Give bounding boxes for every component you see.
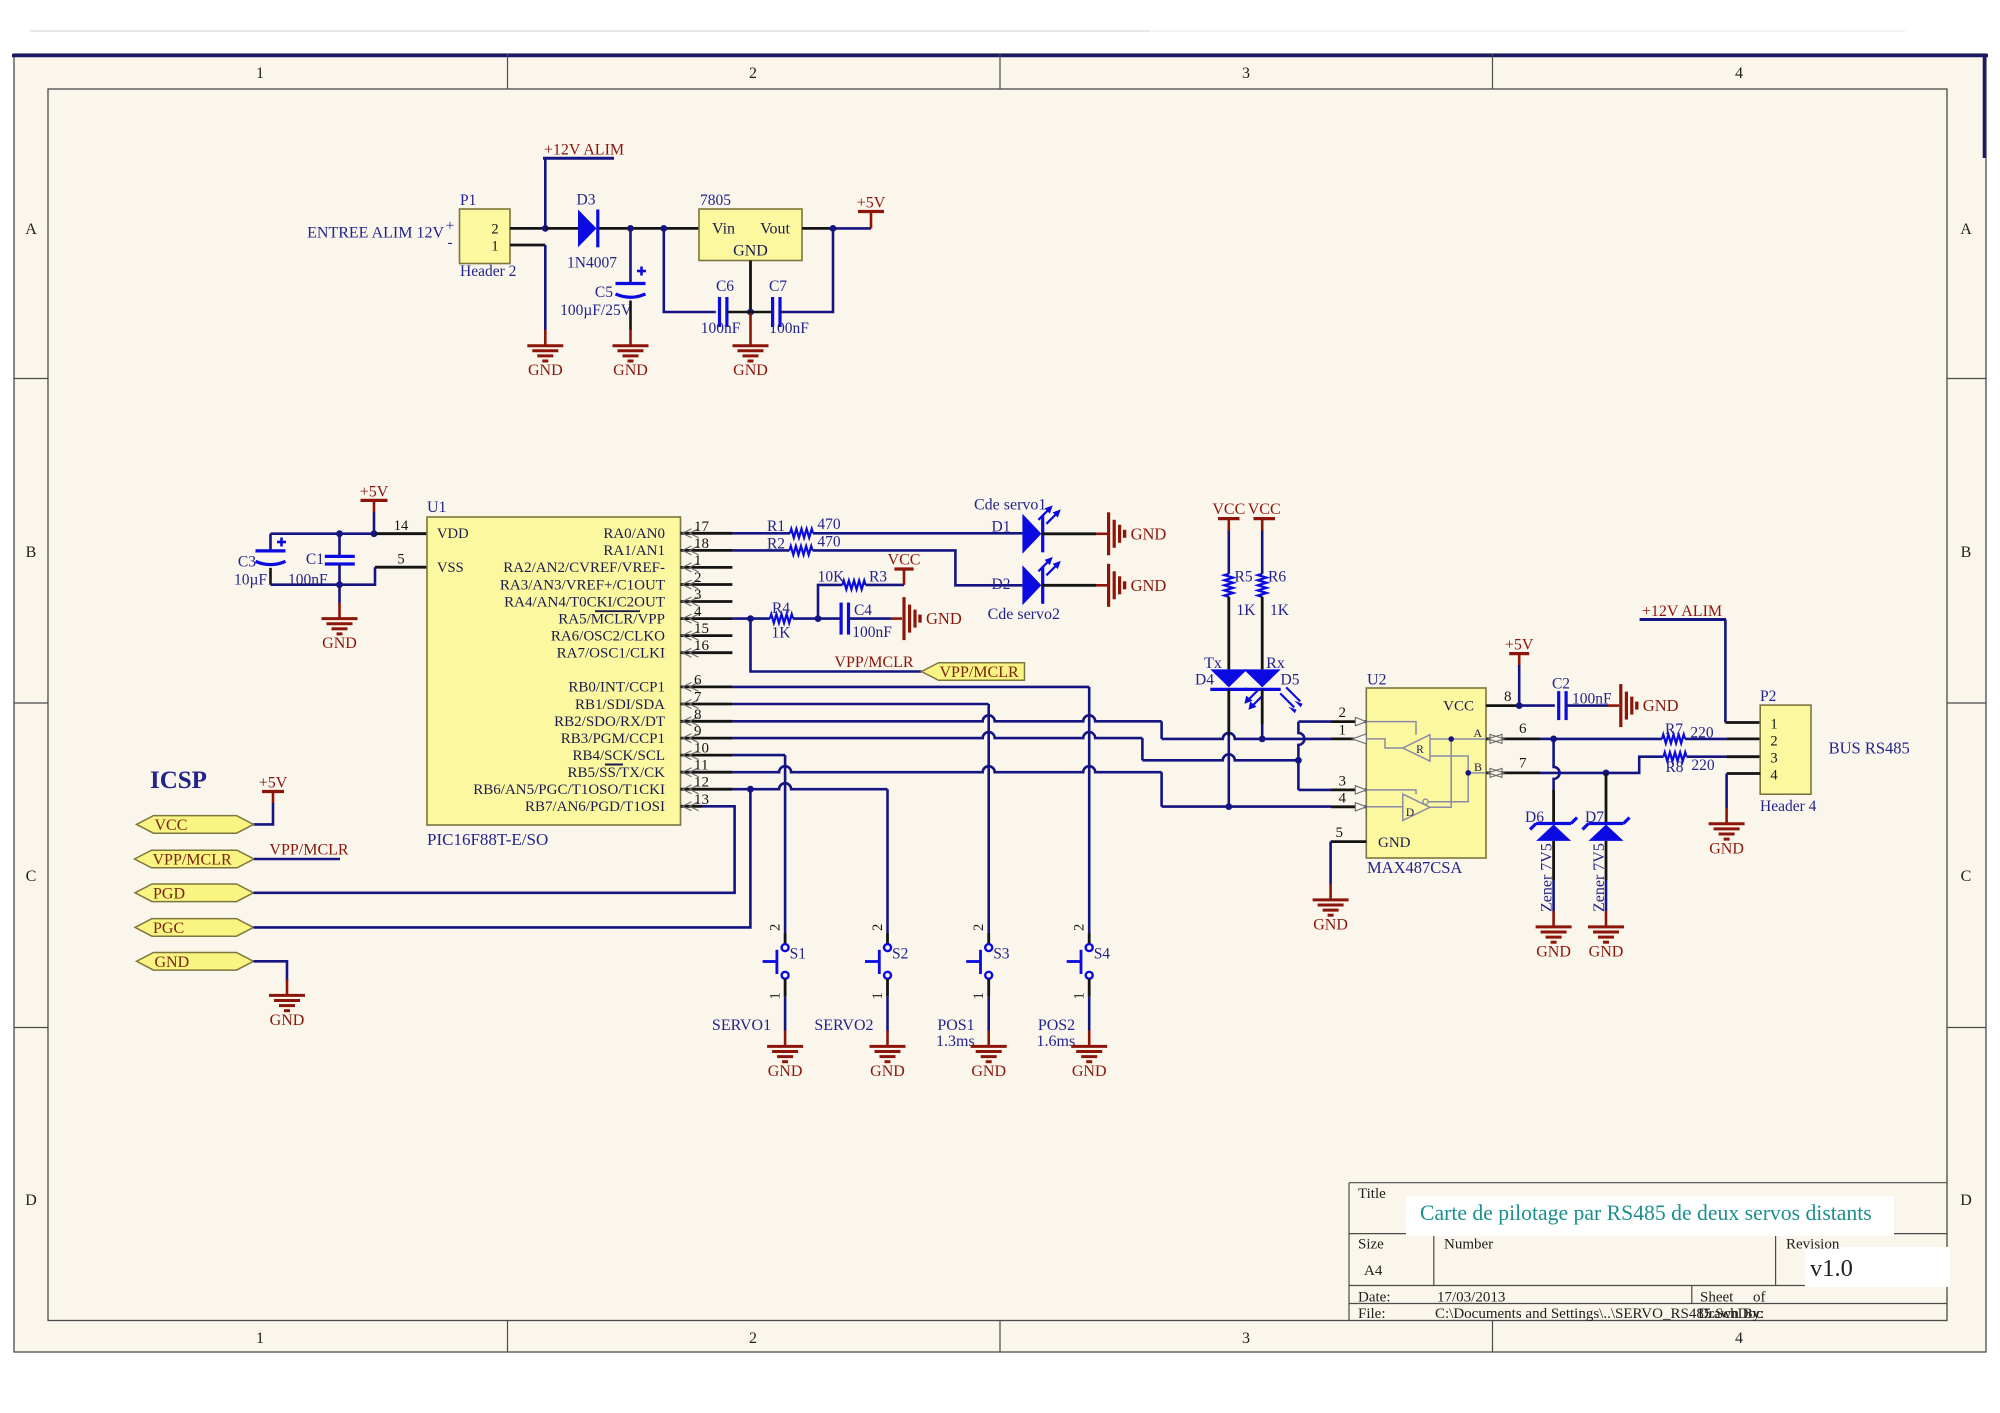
svg-text:GND: GND	[733, 362, 768, 379]
frame top navy border	[12, 54, 1988, 57]
pin 7805 GND	[749, 261, 752, 313]
wire B down to D7	[1605, 773, 1608, 822]
svg-text:1.6ms: 1.6ms	[1037, 1033, 1076, 1050]
wire Vout to +5V	[833, 227, 871, 230]
wire R2 to D2	[813, 550, 1023, 585]
ground GND under P1	[544, 330, 547, 346]
ground GND (S1)	[784, 1030, 787, 1046]
svg-text:RB0/INT/CCP1: RB0/INT/CCP1	[568, 680, 665, 696]
overline SS	[605, 764, 623, 766]
pin P2.4 to ground	[1727, 772, 1761, 775]
svg-text:5: 5	[397, 552, 404, 568]
svg-text:Vout: Vout	[760, 221, 790, 238]
wire RA5 to R4	[732, 617, 770, 620]
svg-text:File:: File:	[1358, 1306, 1386, 1322]
regulator 7805	[699, 209, 802, 261]
wire RB3 to U2 RE/DE	[732, 732, 1142, 738]
node junction D5/RO	[1259, 736, 1266, 743]
wire PGD to RB7	[254, 806, 735, 893]
node junction D4/DI	[1225, 803, 1232, 810]
svg-text:C: C	[1961, 868, 1972, 885]
ground GND (U2)	[1329, 884, 1332, 900]
svg-text:RA1/AN1: RA1/AN1	[603, 543, 665, 559]
wire RB6 to S2	[732, 783, 887, 789]
svg-text:GND: GND	[270, 1012, 305, 1029]
svg-text:B: B	[26, 544, 37, 561]
ground GND (S4)	[1088, 1030, 1091, 1046]
wire U2 gnd	[1329, 842, 1332, 884]
svg-text:+5V: +5V	[857, 195, 886, 212]
mcu U1 PIC16F88T-E/SO body	[427, 517, 681, 825]
pin U1 8 RB2/SDO/RX/DT	[681, 720, 733, 723]
resistor R4 1K	[770, 614, 793, 623]
svg-text:R2: R2	[767, 536, 785, 553]
svg-text:2: 2	[491, 222, 498, 238]
svg-text:9: 9	[694, 724, 702, 740]
svg-text:C5: C5	[595, 284, 613, 301]
svg-text:D3: D3	[577, 192, 596, 209]
capacitor C6 100nF	[718, 297, 721, 327]
power port VCC (R3)	[903, 569, 906, 585]
svg-text:PGD: PGD	[153, 885, 185, 902]
pin R5 to D4	[1227, 597, 1230, 670]
svg-text:100µF/25V: 100µF/25V	[560, 302, 633, 319]
svg-text:R6: R6	[1268, 569, 1286, 586]
node junction +5V	[371, 530, 378, 537]
svg-text:PGC: PGC	[153, 920, 184, 937]
svg-text:GND: GND	[1643, 696, 1679, 715]
svg-text:Carte de pilotage par RS485 de: Carte de pilotage par RS485 de deux serv…	[1420, 1201, 1872, 1225]
pin U1 15 RA6/OSC2/CLKO	[681, 634, 733, 637]
svg-text:1.3ms: 1.3ms	[936, 1033, 975, 1050]
wire +5V to VCC flag	[254, 803, 274, 824]
svg-text:6: 6	[694, 672, 702, 688]
wire RB5 to U2 DI	[732, 766, 1161, 772]
svg-text:POS2: POS2	[1038, 1017, 1075, 1034]
svg-text:VCC: VCC	[1212, 501, 1245, 518]
svg-text:Title: Title	[1358, 1186, 1386, 1202]
node junction P1.2/D3	[542, 225, 549, 232]
wire S1 to ground	[784, 997, 787, 1031]
resistor R6 1K	[1258, 574, 1267, 597]
pin U2.4	[1331, 805, 1366, 808]
svg-text:1K: 1K	[772, 625, 792, 642]
ground GND (D6)	[1552, 911, 1555, 927]
svg-text:RB6/AN5/PGC/T1OSO/T1CKI: RB6/AN5/PGC/T1OSO/T1CKI	[473, 782, 665, 798]
wire RB1 to S3	[732, 703, 988, 706]
svg-text:1N4007: 1N4007	[567, 255, 617, 272]
pin U2.1	[1331, 738, 1366, 741]
svg-text:RB1/SDI/SDA: RB1/SDI/SDA	[575, 697, 665, 713]
wire +12V to node	[544, 158, 547, 228]
pin U1 18 RA1/AN1	[681, 549, 733, 552]
svg-text:1: 1	[256, 1330, 264, 1347]
svg-text:D1: D1	[992, 519, 1011, 536]
svg-text:VSS: VSS	[437, 560, 464, 576]
power port +5V (regulator)	[858, 210, 884, 213]
buffer R internal	[1366, 722, 1416, 748]
wire gnd rail down	[338, 585, 341, 603]
svg-text:100nF: 100nF	[769, 320, 809, 337]
svg-text:SERVO2: SERVO2	[814, 1017, 873, 1034]
ic U2 MAX487CSA body	[1366, 688, 1486, 858]
svg-text:GND: GND	[926, 609, 962, 628]
wire RB2 to U2 RO	[732, 715, 1161, 721]
pin U1 17 RA0/AN0	[681, 532, 733, 535]
svg-text:14: 14	[394, 518, 409, 534]
svg-text:+12V ALIM: +12V ALIM	[1642, 603, 1722, 620]
svg-text:RA5/MCLR/VPP: RA5/MCLR/VPP	[558, 611, 665, 627]
svg-text:GND: GND	[1072, 1063, 1107, 1080]
svg-text:2: 2	[870, 924, 886, 931]
svg-text:D: D	[25, 1192, 37, 1209]
svg-text:VPP/MCLR: VPP/MCLR	[940, 664, 1019, 681]
wire GND flag to ground	[254, 961, 288, 981]
svg-text:C6: C6	[716, 278, 734, 295]
svg-text:S2: S2	[892, 946, 908, 963]
ground GND (D7)	[1605, 911, 1608, 927]
svg-text:R3: R3	[869, 569, 887, 586]
svg-text:2: 2	[1072, 924, 1088, 931]
svg-text:VPP/MCLR: VPP/MCLR	[153, 852, 232, 869]
pin U1 10 RB4/SCK/SCL	[681, 754, 733, 757]
svg-text:8: 8	[694, 707, 702, 723]
svg-text:Cde servo2: Cde servo2	[988, 606, 1060, 623]
capacitor C7 100nF	[751, 311, 773, 314]
svg-text:15: 15	[694, 621, 709, 637]
svg-text:PIC16F88T-E/SO: PIC16F88T-E/SO	[427, 830, 548, 849]
svg-text:VCC: VCC	[888, 552, 921, 569]
svg-text:RB5/SS/TX/CK: RB5/SS/TX/CK	[567, 765, 665, 781]
svg-text:470: 470	[817, 516, 841, 533]
svg-text:S3: S3	[993, 946, 1010, 963]
svg-text:470: 470	[817, 534, 841, 551]
svg-text:Zener 7V5: Zener 7V5	[1591, 843, 1608, 912]
svg-text:4: 4	[1735, 1330, 1743, 1347]
svg-text:of: of	[1753, 1290, 1766, 1306]
svg-text:RB3/PGM/CCP1: RB3/PGM/CCP1	[561, 731, 665, 747]
wire D4 cathode to DI net	[1227, 690, 1230, 737]
pin U1 9 RB3/PGM/CCP1	[681, 737, 733, 740]
svg-text:Number: Number	[1444, 1237, 1493, 1253]
svg-text:17/03/2013: 17/03/2013	[1437, 1290, 1505, 1306]
svg-text:C1: C1	[306, 551, 324, 568]
port flag VPP/MCLR (ICSP)	[135, 850, 255, 868]
node junction A internal	[1448, 736, 1454, 742]
svg-text:GND: GND	[1709, 840, 1744, 857]
svg-text:C: C	[26, 868, 37, 885]
svg-text:R5: R5	[1235, 569, 1253, 586]
svg-text:ICSP: ICSP	[150, 767, 207, 794]
svg-text:VCC: VCC	[1443, 699, 1474, 715]
svg-text:GND: GND	[768, 1063, 803, 1080]
svg-text:1: 1	[256, 65, 264, 82]
svg-text:GND: GND	[1131, 576, 1167, 595]
svg-text:Zener 7V5: Zener 7V5	[1539, 843, 1556, 912]
connector P2 Header 4	[1760, 705, 1811, 794]
svg-text:RB7/AN6/PGD/T1OSI: RB7/AN6/PGD/T1OSI	[525, 799, 665, 815]
svg-text:2: 2	[768, 924, 784, 931]
svg-text:2: 2	[1339, 705, 1347, 721]
svg-text:RA4/AN4/T0CKI/C2OUT: RA4/AN4/T0CKI/C2OUT	[504, 594, 665, 610]
svg-text:Cde servo1: Cde servo1	[974, 497, 1046, 514]
svg-text:3: 3	[1242, 1330, 1250, 1347]
svg-text:GND: GND	[733, 243, 768, 260]
pin U2.3	[1331, 789, 1366, 792]
svg-text:4: 4	[1770, 768, 1778, 784]
node junction Vout	[830, 225, 837, 232]
wire PGC to RB6 net	[254, 789, 751, 927]
svg-text:Vin: Vin	[712, 221, 735, 238]
svg-text:GND: GND	[155, 954, 190, 971]
svg-text:Date:: Date:	[1358, 1290, 1390, 1306]
resistor R3 10K	[843, 581, 866, 590]
svg-text:7805: 7805	[700, 192, 731, 209]
node junction C6 branch	[660, 225, 667, 232]
wire S4 to ground	[1088, 997, 1091, 1031]
svg-text:+: +	[446, 218, 454, 234]
svg-text:GND: GND	[613, 362, 648, 379]
svg-text:A4: A4	[1364, 1263, 1383, 1279]
svg-text:Drawn By:: Drawn By:	[1698, 1306, 1764, 1322]
svg-text:VCC: VCC	[155, 817, 188, 834]
svg-text:7: 7	[1519, 756, 1527, 772]
svg-text:+5V: +5V	[360, 483, 389, 500]
svg-text:17: 17	[694, 519, 710, 535]
pin U1 VSS 5	[375, 566, 427, 569]
svg-text:8: 8	[1504, 689, 1512, 705]
svg-text:100nF: 100nF	[701, 320, 741, 337]
svg-text:1: 1	[694, 553, 702, 569]
svg-text:1: 1	[870, 992, 886, 999]
svg-text:VPP/MCLR: VPP/MCLR	[834, 654, 913, 671]
node junction B/D7	[1603, 770, 1610, 777]
svg-text:1: 1	[768, 992, 784, 999]
svg-text:VDD: VDD	[437, 526, 469, 542]
svg-text:5: 5	[1336, 825, 1344, 841]
pin U1 11 RB5/SS/TX/CK	[681, 771, 733, 774]
wire A to R7	[1540, 738, 1554, 741]
svg-text:A: A	[25, 221, 37, 238]
pin U1 7 RB1/SDI/SDA	[681, 703, 733, 706]
wire A down to D6	[1554, 739, 1560, 790]
svg-text:A: A	[1473, 726, 1482, 740]
svg-text:GND: GND	[971, 1063, 1006, 1080]
port flag PGD	[135, 884, 254, 902]
ground GND (ICSP)	[286, 979, 289, 995]
svg-text:+12V ALIM: +12V ALIM	[544, 142, 624, 159]
svg-text:Header 4: Header 4	[1760, 798, 1817, 815]
pin R6 to D5	[1261, 597, 1264, 670]
svg-text:1: 1	[491, 239, 498, 255]
svg-text:P1: P1	[460, 192, 476, 209]
pin U1 3 RA4/AN4/T0CKI/C2OUT	[681, 600, 733, 603]
frame column/row separators	[507, 54, 509, 89]
wire RA1 to R2	[732, 549, 789, 552]
svg-text:POS1: POS1	[937, 1017, 974, 1034]
pin U1 1 RA2/AN2/CVREF/VREF-	[681, 566, 733, 569]
svg-text:100nF: 100nF	[852, 624, 892, 641]
svg-text:P2: P2	[1760, 688, 1776, 705]
svg-text:R4: R4	[772, 600, 790, 617]
svg-text:1: 1	[1770, 717, 1777, 733]
svg-text:RA6/OSC2/CLKO: RA6/OSC2/CLKO	[551, 628, 665, 644]
pin 7805 Vout	[802, 227, 833, 230]
wire B to R8	[1540, 772, 1606, 775]
wire S2 to ground	[886, 997, 889, 1031]
svg-text:220: 220	[1691, 757, 1715, 774]
node junction C1 top	[336, 530, 343, 537]
svg-text:10: 10	[694, 741, 709, 757]
capacitor C3 10uF	[269, 534, 272, 551]
svg-text:C4: C4	[854, 602, 872, 619]
svg-text:A: A	[1960, 221, 1972, 238]
svg-text:BUS RS485: BUS RS485	[1829, 739, 1910, 758]
svg-text:R1: R1	[767, 518, 785, 535]
svg-text:v1.0: v1.0	[1810, 1255, 1853, 1282]
svg-text:B: B	[1474, 760, 1482, 774]
wire D5 cathode to RO net	[1261, 690, 1264, 725]
node junction B internal	[1465, 770, 1471, 776]
pin U1 6 RB0/INT/CCP1	[681, 686, 733, 689]
pin U2.8 VCC	[1486, 704, 1517, 707]
svg-text:12: 12	[694, 775, 709, 791]
ground GND (C2)	[1619, 684, 1622, 727]
svg-text:3: 3	[1339, 774, 1347, 790]
ground GND (D1)	[1107, 512, 1110, 555]
svg-text:2: 2	[694, 570, 702, 586]
connector P1	[460, 209, 511, 264]
title block white patches	[1406, 1196, 1894, 1236]
svg-text:18: 18	[694, 536, 709, 552]
svg-text:GND: GND	[870, 1063, 905, 1080]
port flag GND	[137, 953, 254, 971]
wire R8 to P2.3	[1687, 755, 1727, 758]
node junction +5V/U2.8	[1516, 702, 1523, 709]
svg-text:C2: C2	[1552, 676, 1570, 693]
ground GND under C1	[338, 603, 341, 619]
port flag VPP/MCLR (net)	[922, 663, 1025, 681]
svg-text:4: 4	[694, 604, 702, 620]
svg-text:SERVO1: SERVO1	[712, 1017, 771, 1034]
node junction 7805-gnd/C6/C7	[747, 309, 754, 316]
wire C6 branch	[664, 228, 716, 312]
svg-text:+5V: +5V	[1505, 637, 1534, 654]
capacitor C1 100nF	[338, 534, 341, 557]
node junction RA5	[747, 615, 754, 622]
svg-text:+5V: +5V	[259, 775, 288, 792]
node junction A/D6	[1550, 736, 1557, 743]
node junction D3/C5	[627, 225, 634, 232]
ground GND (S3)	[987, 1030, 990, 1046]
svg-text:16: 16	[694, 638, 710, 654]
svg-text:GND: GND	[1536, 943, 1571, 960]
pin P1.2	[510, 227, 545, 230]
pin U1 13 RB7/AN6/PGD/T1OSI	[681, 805, 703, 808]
ground GND (S2)	[886, 1030, 889, 1046]
resistor R2 470	[790, 546, 813, 555]
port flag PGC	[135, 919, 254, 937]
svg-text:3: 3	[694, 587, 702, 603]
overline MCLR	[595, 610, 640, 612]
svg-text:Sheet: Sheet	[1700, 1290, 1734, 1306]
svg-text:3: 3	[1242, 65, 1250, 82]
node junction C1 bottom	[336, 581, 343, 588]
node junction R4/C4/R3	[815, 615, 822, 622]
ground GND (D2)	[1107, 564, 1110, 607]
wire RB4 to S1	[732, 754, 785, 757]
svg-text:2: 2	[971, 924, 987, 931]
svg-text:10K: 10K	[818, 569, 846, 586]
svg-text:VPP/MCLR: VPP/MCLR	[269, 842, 348, 859]
svg-text:S4: S4	[1094, 946, 1111, 963]
svg-text:10µF: 10µF	[234, 572, 267, 589]
wire RE/DE vertical	[1298, 720, 1331, 723]
svg-text:D: D	[1960, 1192, 1972, 1209]
svg-text:GND: GND	[1131, 524, 1167, 543]
svg-text:VCC: VCC	[1248, 501, 1281, 518]
node junction PGC/RB6	[747, 786, 754, 793]
port flag VCC	[137, 816, 254, 834]
svg-text:S1: S1	[790, 946, 806, 963]
wire +5V rail to VDD	[271, 532, 428, 535]
power port +5V (ICSP)	[262, 790, 284, 793]
wire U2.8 to C2	[1519, 704, 1555, 707]
pin U2.6 A	[1486, 738, 1540, 741]
svg-text:R8: R8	[1665, 759, 1683, 776]
svg-text:6: 6	[1519, 721, 1527, 737]
pin U1 12 RB6/AN5/PGC/T1OSO/T1CKI	[681, 788, 733, 791]
svg-text:RA3/AN3/VREF+/C1OUT: RA3/AN3/VREF+/C1OUT	[500, 577, 665, 593]
pin U2.5 GND	[1331, 840, 1367, 843]
svg-text:R7: R7	[1665, 721, 1683, 738]
capacitor C4 100nF	[818, 617, 841, 620]
svg-text:1: 1	[971, 992, 987, 999]
svg-text:1K: 1K	[1237, 602, 1257, 619]
svg-text:GND: GND	[1313, 916, 1348, 933]
svg-text:U2: U2	[1367, 672, 1387, 689]
svg-text:D: D	[1406, 807, 1414, 819]
pin U1 16 RA7/OSC1/CLKI	[681, 651, 733, 654]
wire VSS to gnd rail	[271, 567, 376, 585]
svg-text:U1: U1	[427, 499, 447, 516]
buffer D internal	[1366, 790, 1416, 807]
svg-text:C7: C7	[769, 278, 787, 295]
svg-text:2: 2	[1770, 734, 1777, 750]
svg-text:Size: Size	[1358, 1237, 1384, 1253]
pin U1 2 RA3/AN3/VREF+/C1OUT	[681, 583, 733, 586]
svg-text:Revision: Revision	[1786, 1237, 1840, 1253]
svg-text:GND: GND	[1589, 943, 1624, 960]
wire VCC to R6	[1261, 531, 1264, 574]
wire VCC to R5	[1228, 531, 1231, 574]
pin U2.7 B	[1486, 772, 1540, 775]
wire R1 to D1	[813, 532, 1022, 535]
svg-text:D2: D2	[992, 576, 1011, 593]
wire RB0 to S4	[732, 686, 1089, 689]
resistor R5 1K	[1225, 574, 1234, 597]
svg-text:MAX487CSA: MAX487CSA	[1367, 858, 1462, 877]
svg-text:GND: GND	[322, 635, 357, 652]
svg-text:1K: 1K	[1270, 602, 1290, 619]
svg-text:1: 1	[1339, 723, 1347, 739]
ground GND (P2)	[1725, 808, 1728, 824]
pin U1 4 RA5/MCLR/VPP	[681, 617, 733, 620]
svg-text:4: 4	[1735, 65, 1743, 82]
resistor R1 470	[790, 529, 813, 538]
svg-text:2: 2	[749, 65, 757, 82]
svg-text:ENTREE ALIM 12V: ENTREE ALIM 12V	[307, 225, 444, 242]
